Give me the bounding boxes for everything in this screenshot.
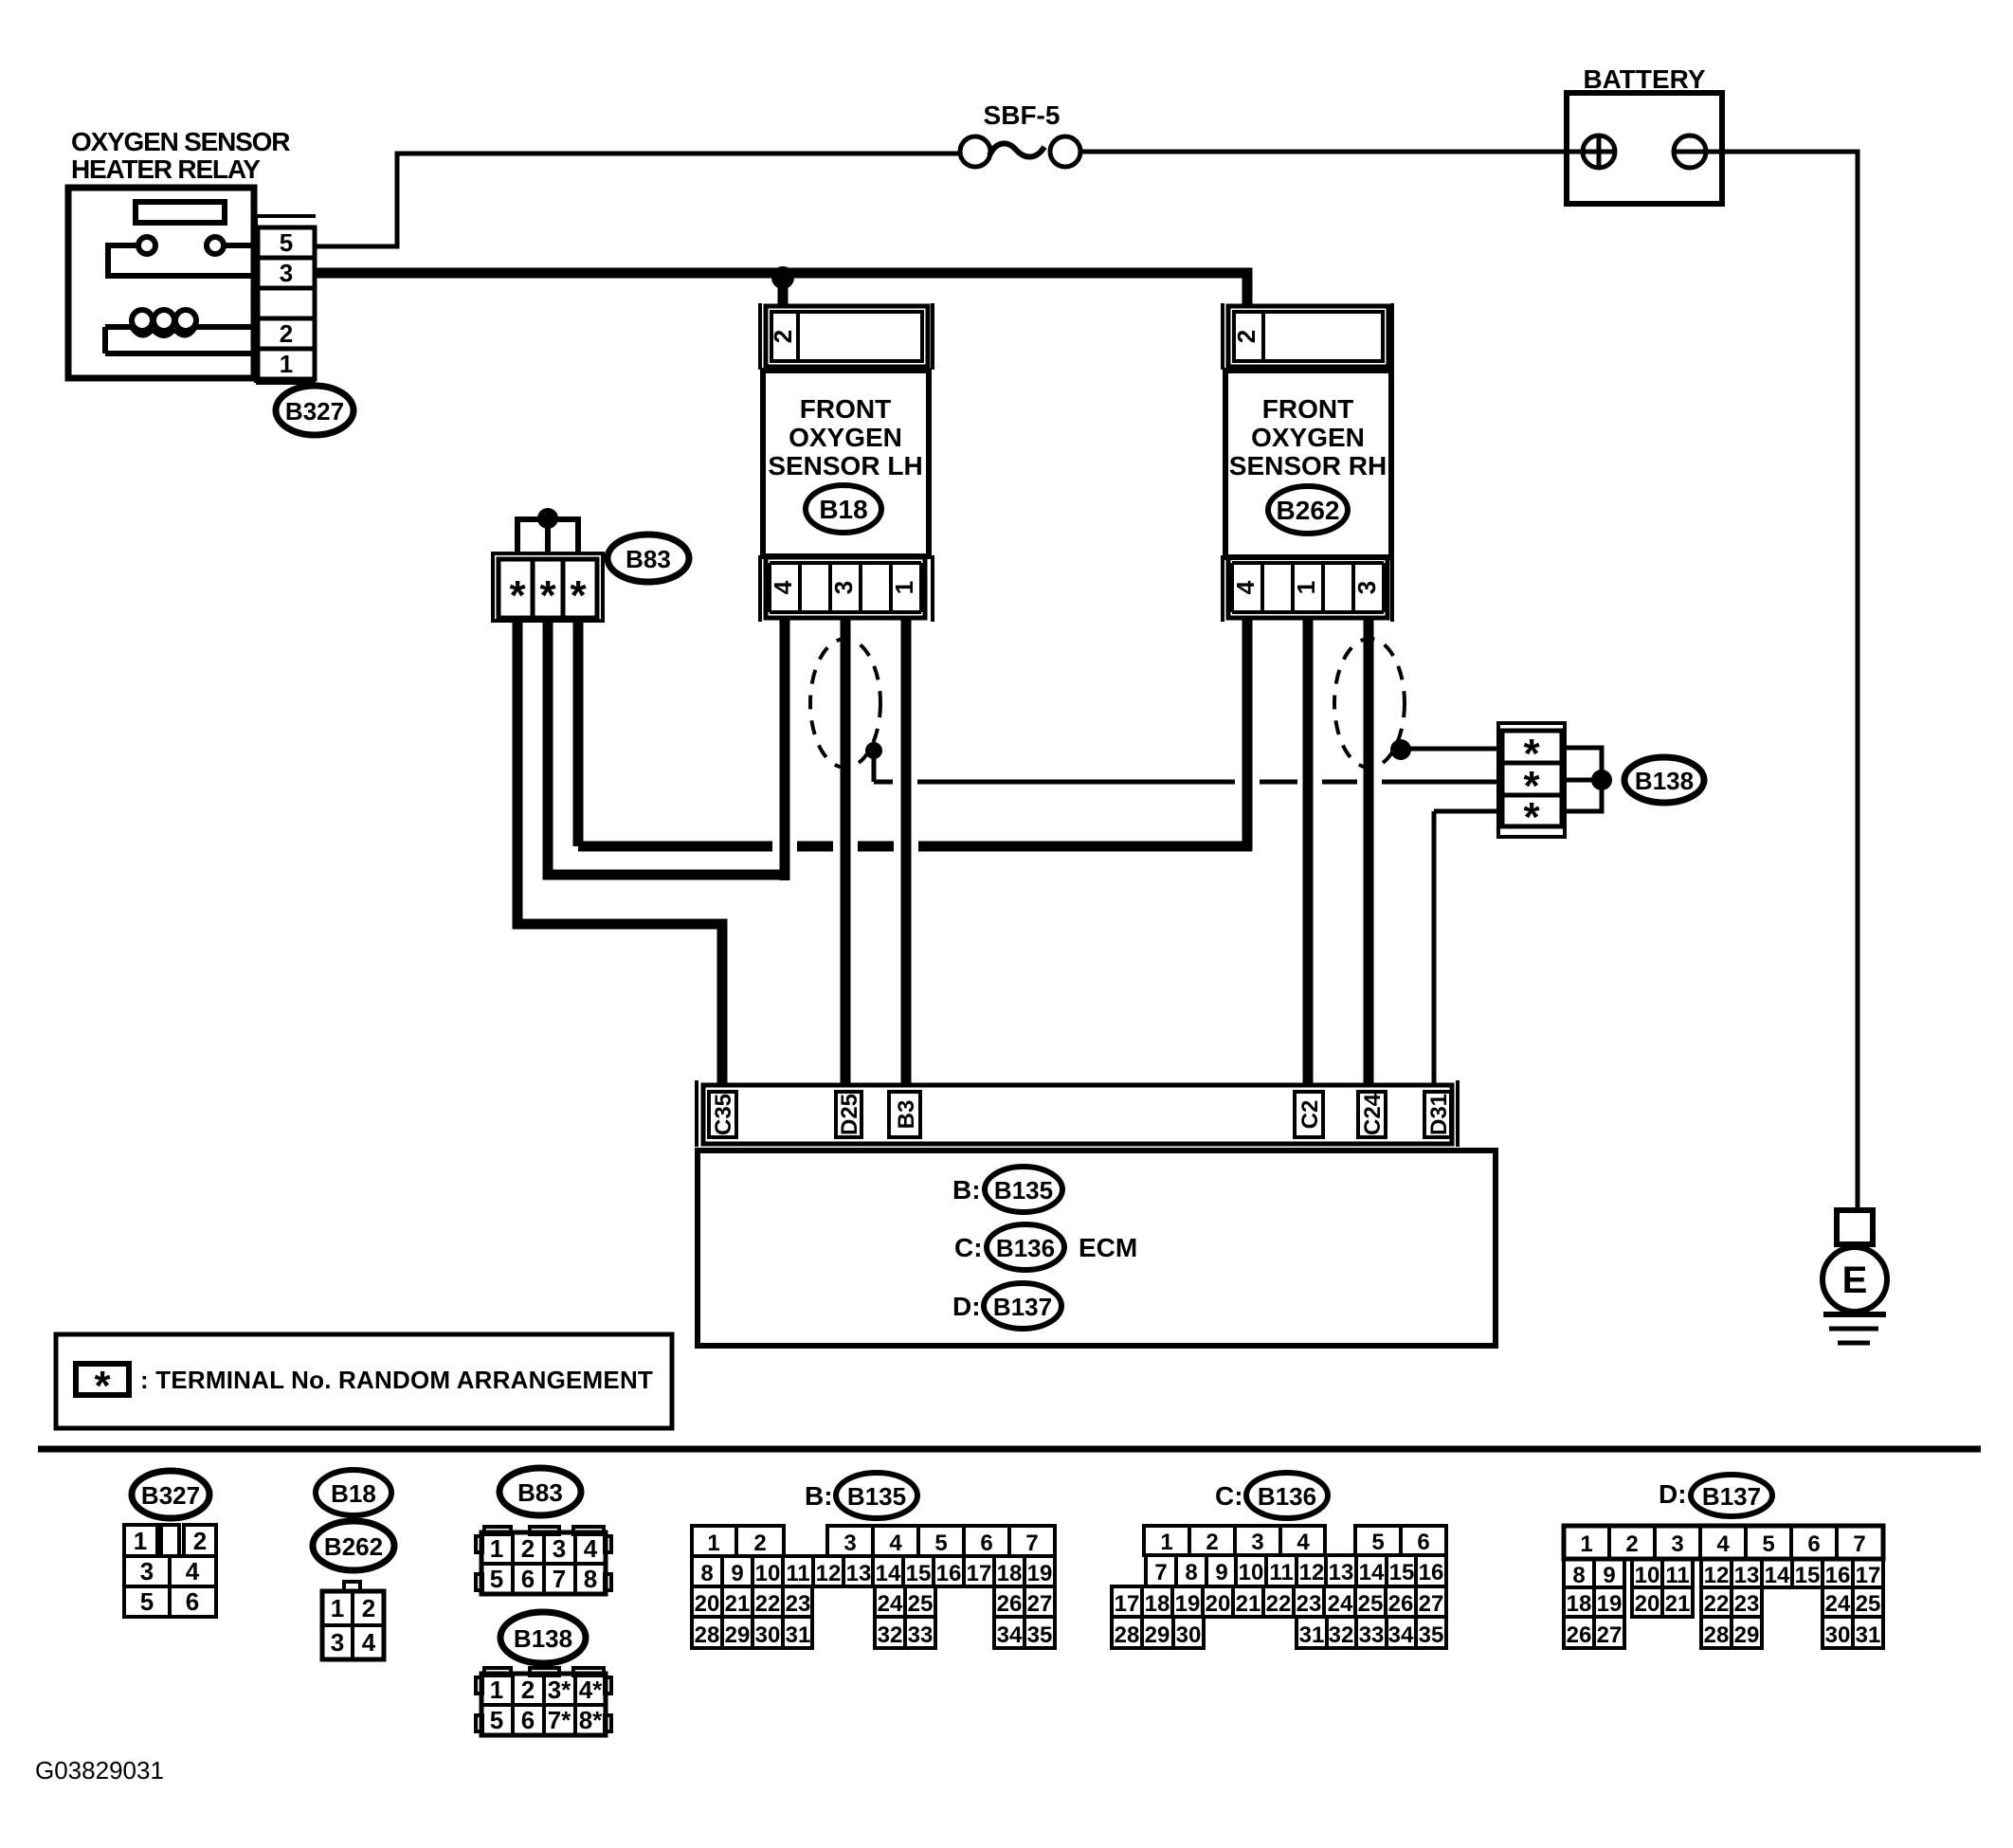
svg-text:1: 1 (890, 581, 918, 594)
svg-text:3: 3 (553, 1534, 566, 1563)
svg-text:29: 29 (1734, 1622, 1760, 1648)
svg-text:34: 34 (1388, 1622, 1414, 1648)
svg-text:FRONT: FRONT (1262, 394, 1353, 424)
svg-text:24: 24 (1825, 1591, 1851, 1617)
svg-text:34: 34 (997, 1622, 1023, 1648)
svg-text:D31: D31 (1426, 1094, 1452, 1135)
svg-text:10: 10 (1239, 1560, 1264, 1585)
svg-text:5: 5 (140, 1587, 154, 1616)
svg-text:4: 4 (584, 1534, 598, 1563)
svg-text:7: 7 (1853, 1531, 1865, 1557)
svg-text:B137: B137 (993, 1293, 1052, 1321)
svg-text:3*: 3* (548, 1676, 571, 1704)
svg-text:OXYGEN: OXYGEN (1251, 423, 1365, 452)
svg-text:8: 8 (700, 1561, 713, 1586)
svg-text:5: 5 (934, 1531, 947, 1556)
svg-text:1: 1 (1580, 1531, 1592, 1557)
svg-text:B262: B262 (324, 1532, 383, 1561)
svg-text:HEATER RELAY: HEATER RELAY (71, 154, 261, 184)
svg-text:30: 30 (755, 1622, 781, 1648)
svg-text:30: 30 (1825, 1622, 1851, 1648)
svg-text:23: 23 (786, 1591, 811, 1617)
svg-text:4*: 4* (579, 1676, 603, 1704)
svg-text:31: 31 (1856, 1622, 1881, 1648)
svg-text:16: 16 (1825, 1563, 1851, 1588)
svg-text:3: 3 (1251, 1530, 1263, 1555)
svg-text:13: 13 (1329, 1560, 1354, 1585)
svg-text:8*: 8* (579, 1706, 603, 1734)
svg-text:6: 6 (1417, 1530, 1429, 1555)
svg-text:7*: 7* (548, 1706, 571, 1734)
svg-text:12: 12 (1299, 1560, 1325, 1585)
svg-text:3: 3 (1671, 1531, 1683, 1557)
svg-text:16: 16 (936, 1561, 962, 1586)
svg-text:BATTERY: BATTERY (1583, 64, 1705, 94)
svg-text:10: 10 (755, 1561, 781, 1586)
svg-text:20: 20 (695, 1591, 720, 1617)
svg-text:11: 11 (1665, 1563, 1689, 1588)
svg-text:B136: B136 (1258, 1482, 1316, 1511)
svg-text:9: 9 (1603, 1563, 1615, 1588)
svg-text:31: 31 (1299, 1622, 1325, 1648)
svg-text:*: * (539, 572, 556, 619)
svg-text:15: 15 (1795, 1563, 1821, 1588)
svg-text:1: 1 (490, 1676, 503, 1704)
svg-text:26: 26 (1567, 1622, 1592, 1648)
svg-text:4: 4 (1297, 1530, 1310, 1555)
svg-text:15: 15 (1389, 1560, 1415, 1585)
svg-text:22: 22 (755, 1591, 781, 1617)
svg-text:19: 19 (1175, 1591, 1201, 1617)
svg-text:20: 20 (1635, 1591, 1660, 1617)
svg-text:3: 3 (140, 1557, 154, 1585)
svg-text:14: 14 (876, 1561, 901, 1586)
svg-text:26: 26 (1388, 1591, 1414, 1617)
svg-text:1: 1 (280, 350, 293, 378)
svg-text:C35: C35 (711, 1094, 736, 1135)
svg-text:5: 5 (280, 228, 293, 257)
svg-text:D25: D25 (837, 1094, 862, 1135)
svg-text:4: 4 (1231, 580, 1260, 594)
svg-text:14: 14 (1765, 1563, 1790, 1588)
svg-text:16: 16 (1419, 1560, 1444, 1585)
svg-text:19: 19 (1597, 1591, 1623, 1617)
svg-text:OXYGEN SENSOR: OXYGEN SENSOR (71, 127, 290, 156)
svg-text:: TERMINAL No. RANDOM ARRANGEM: : TERMINAL No. RANDOM ARRANGEMENT (140, 1366, 653, 1394)
svg-text:5: 5 (1371, 1530, 1384, 1555)
svg-text:C:: C: (954, 1233, 983, 1262)
svg-text:6: 6 (186, 1587, 199, 1616)
svg-text:17: 17 (1115, 1591, 1140, 1617)
svg-text:5: 5 (490, 1706, 503, 1734)
svg-text:2: 2 (1625, 1531, 1638, 1557)
svg-text:13: 13 (1734, 1563, 1760, 1588)
svg-text:B135: B135 (847, 1482, 906, 1511)
svg-text:B136: B136 (996, 1234, 1055, 1262)
svg-text:5: 5 (1762, 1531, 1774, 1557)
svg-text:SENSOR RH: SENSOR RH (1229, 451, 1387, 480)
svg-text:C2: C2 (1297, 1100, 1323, 1130)
svg-text:8: 8 (1572, 1563, 1585, 1588)
svg-text:C24: C24 (1360, 1093, 1386, 1135)
svg-text:18: 18 (1567, 1591, 1592, 1617)
svg-text:B137: B137 (1702, 1482, 1761, 1511)
svg-text:11: 11 (786, 1561, 809, 1586)
svg-text:23: 23 (1297, 1591, 1322, 1617)
svg-text:25: 25 (908, 1591, 934, 1617)
svg-text:28: 28 (1115, 1622, 1140, 1648)
svg-text:8: 8 (1185, 1560, 1197, 1585)
svg-text:3: 3 (331, 1628, 344, 1657)
svg-text:3: 3 (280, 259, 293, 287)
svg-text:6: 6 (521, 1706, 535, 1734)
svg-text:5: 5 (490, 1565, 503, 1593)
svg-text:21: 21 (1236, 1591, 1261, 1617)
svg-text:3: 3 (1352, 581, 1381, 594)
svg-text:2: 2 (362, 1594, 375, 1622)
svg-text:18: 18 (997, 1561, 1023, 1586)
svg-text:D:: D: (952, 1292, 981, 1321)
svg-text:6: 6 (521, 1565, 535, 1593)
svg-text:9: 9 (1215, 1560, 1227, 1585)
svg-text:35: 35 (1027, 1622, 1053, 1648)
svg-text:4: 4 (186, 1557, 200, 1585)
svg-text:33: 33 (1359, 1622, 1385, 1648)
svg-text:*: * (94, 1363, 111, 1409)
svg-text:6: 6 (980, 1531, 992, 1556)
svg-text:B83: B83 (626, 545, 671, 573)
svg-text:27: 27 (1027, 1591, 1053, 1617)
svg-text:27: 27 (1597, 1622, 1623, 1648)
svg-text:D:: D: (1659, 1479, 1687, 1509)
svg-text:8: 8 (584, 1565, 597, 1593)
svg-text:14: 14 (1359, 1560, 1385, 1585)
svg-text:1: 1 (331, 1594, 344, 1622)
svg-text:2: 2 (280, 319, 293, 348)
svg-text:SBF-5: SBF-5 (984, 100, 1061, 130)
svg-text:11: 11 (1269, 1560, 1293, 1585)
svg-text:27: 27 (1419, 1591, 1444, 1617)
svg-text:2: 2 (769, 330, 797, 343)
svg-text:B138: B138 (1635, 767, 1694, 795)
svg-text:7: 7 (553, 1565, 566, 1593)
svg-text:22: 22 (1266, 1591, 1292, 1617)
svg-text:G03829031: G03829031 (35, 1756, 164, 1785)
svg-text:3: 3 (829, 581, 858, 594)
svg-text:7: 7 (1154, 1560, 1167, 1585)
svg-text:10: 10 (1635, 1563, 1660, 1588)
svg-text:17: 17 (967, 1561, 992, 1586)
svg-text:2: 2 (753, 1531, 766, 1556)
svg-text:7: 7 (1025, 1531, 1038, 1556)
svg-text:B:: B: (952, 1175, 981, 1205)
svg-text:24: 24 (1328, 1591, 1353, 1617)
svg-text:*: * (570, 572, 587, 619)
svg-text:31: 31 (786, 1622, 811, 1648)
svg-text:2: 2 (521, 1676, 535, 1704)
svg-text:29: 29 (1145, 1622, 1170, 1648)
svg-text:1: 1 (1160, 1530, 1172, 1555)
svg-text:*: * (1523, 794, 1540, 841)
svg-text:4: 4 (769, 580, 797, 594)
svg-text:1: 1 (707, 1531, 719, 1556)
svg-text:2: 2 (193, 1527, 207, 1555)
svg-text:2: 2 (1232, 330, 1260, 343)
svg-text:B135: B135 (994, 1176, 1053, 1205)
svg-text:E: E (1842, 1259, 1868, 1301)
svg-text:22: 22 (1704, 1591, 1730, 1617)
svg-text:25: 25 (1856, 1591, 1881, 1617)
svg-text:17: 17 (1856, 1563, 1881, 1588)
svg-text:33: 33 (908, 1622, 934, 1648)
svg-text:21: 21 (1665, 1591, 1691, 1617)
svg-text:B18: B18 (819, 495, 867, 524)
svg-text:1: 1 (134, 1527, 147, 1555)
svg-text:B18: B18 (331, 1479, 376, 1508)
svg-text:OXYGEN: OXYGEN (789, 423, 902, 452)
svg-text:6: 6 (1807, 1531, 1820, 1557)
svg-text:12: 12 (1704, 1563, 1730, 1588)
svg-text:B262: B262 (1277, 496, 1340, 525)
svg-text:24: 24 (878, 1591, 903, 1617)
svg-text:3: 3 (843, 1531, 856, 1556)
svg-text:19: 19 (1027, 1561, 1053, 1586)
svg-text:28: 28 (1704, 1622, 1730, 1648)
svg-text:32: 32 (1329, 1622, 1354, 1648)
svg-text:B327: B327 (141, 1481, 200, 1510)
svg-text:20: 20 (1206, 1591, 1231, 1617)
svg-text:18: 18 (1145, 1591, 1170, 1617)
svg-text:SENSOR LH: SENSOR LH (768, 451, 922, 480)
svg-text:29: 29 (725, 1622, 751, 1648)
svg-text:26: 26 (997, 1591, 1023, 1617)
svg-text:9: 9 (731, 1561, 743, 1586)
svg-text:4: 4 (1716, 1531, 1730, 1557)
svg-text:1: 1 (490, 1534, 503, 1563)
svg-text:FRONT: FRONT (800, 394, 891, 424)
svg-text:B327: B327 (285, 397, 344, 426)
svg-text:13: 13 (846, 1561, 872, 1586)
svg-text:4: 4 (889, 1531, 902, 1556)
svg-text:25: 25 (1358, 1591, 1384, 1617)
svg-text:*: * (509, 572, 526, 619)
svg-text:30: 30 (1176, 1622, 1202, 1648)
svg-text:B:: B: (805, 1481, 833, 1511)
svg-text:35: 35 (1419, 1622, 1444, 1648)
svg-text:1: 1 (1292, 581, 1320, 594)
svg-text:B3: B3 (894, 1100, 919, 1130)
svg-text:ECM: ECM (1079, 1233, 1137, 1262)
svg-text:12: 12 (816, 1561, 842, 1586)
svg-text:4: 4 (362, 1628, 376, 1657)
svg-text:B83: B83 (517, 1478, 563, 1507)
svg-text:2: 2 (521, 1534, 535, 1563)
svg-text:21: 21 (725, 1591, 751, 1617)
svg-text:C:: C: (1215, 1481, 1243, 1511)
svg-text:B138: B138 (514, 1624, 572, 1653)
svg-text:28: 28 (695, 1622, 720, 1648)
svg-text:2: 2 (1206, 1530, 1218, 1555)
svg-text:32: 32 (878, 1622, 903, 1648)
svg-text:23: 23 (1734, 1591, 1760, 1617)
svg-text:15: 15 (906, 1561, 932, 1586)
